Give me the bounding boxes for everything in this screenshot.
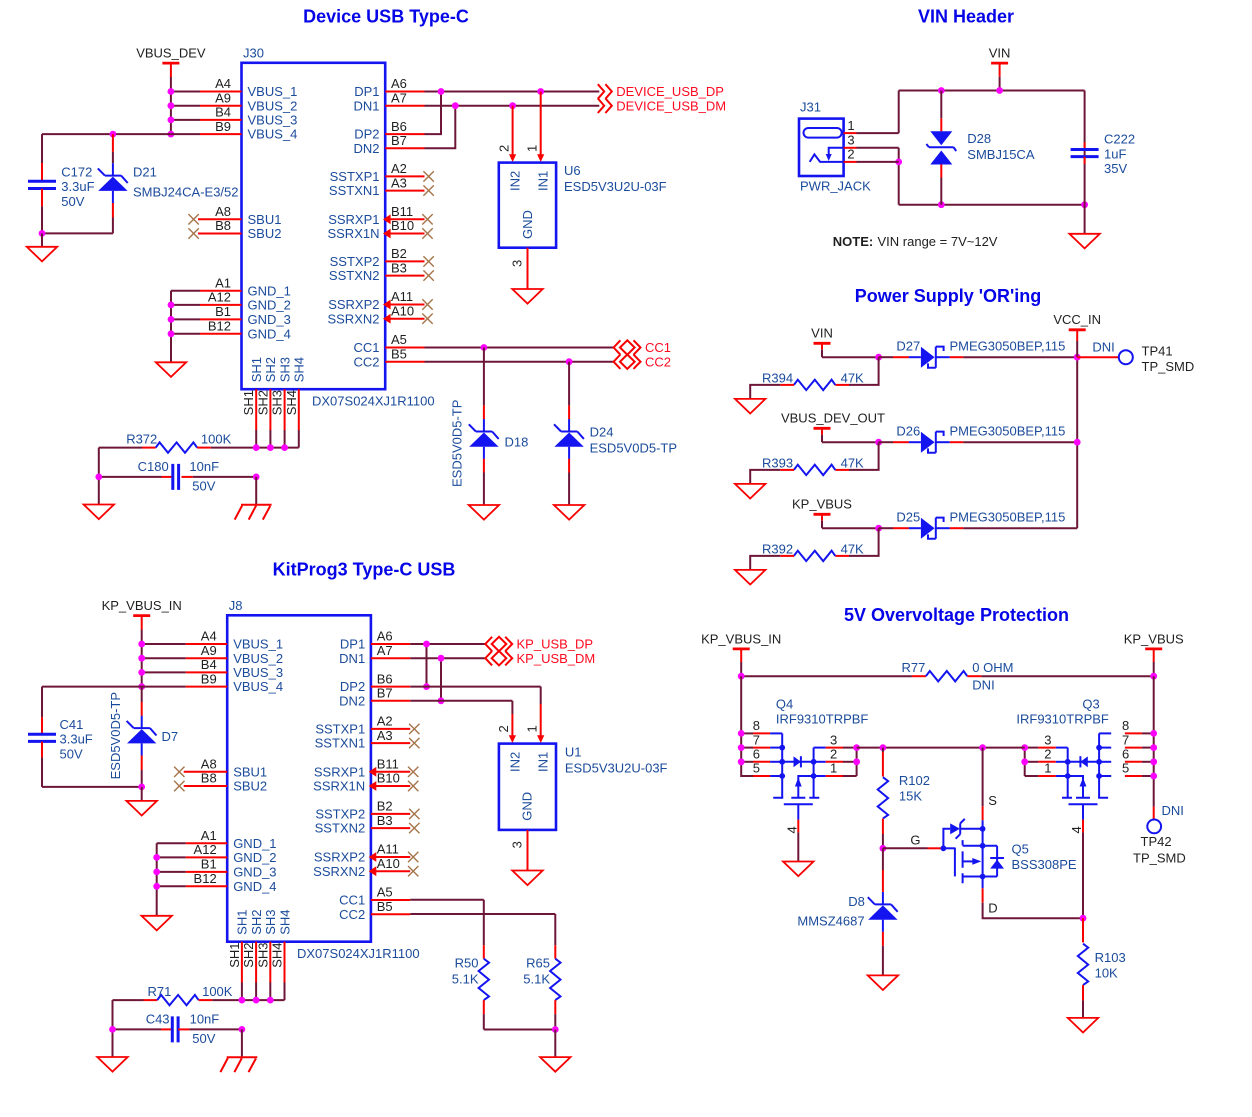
svg-text:B5: B5 [391, 346, 407, 361]
svg-text:Device USB Type-C: Device USB Type-C [303, 7, 469, 27]
svg-text:35V: 35V [1104, 161, 1127, 176]
J8 pin A1 GND_1 (left) [186, 828, 277, 851]
svg-text:B12: B12 [208, 319, 231, 334]
harness connector KP_USB_DM [485, 651, 595, 666]
capacitor C180 10nF 50V [99, 459, 256, 493]
svg-text:R372: R372 [126, 431, 157, 446]
svg-text:6: 6 [753, 747, 760, 762]
wire: KP DP1 net [410, 643, 485, 645]
J8 pin B7 DN2 (right) [339, 686, 410, 709]
svg-text:A4: A4 [215, 76, 231, 91]
svg-text:A2: A2 [377, 714, 393, 729]
wire: D25 cathode to VCC_IN bus [963, 527, 1077, 529]
J8 pin B11 SSRXP1 (right) [314, 757, 419, 780]
svg-text:SMBJ24CA-E3/52: SMBJ24CA-E3/52 [133, 185, 239, 200]
svg-text:DN1: DN1 [339, 651, 365, 666]
wire: U6 GND pin 3 [510, 248, 528, 289]
svg-text:GND: GND [520, 210, 535, 239]
J30 pin A11 SSRXP2 (right) [328, 289, 433, 312]
svg-text:3: 3 [830, 732, 837, 747]
svg-text:5: 5 [753, 761, 760, 776]
svg-text:Q5: Q5 [1012, 842, 1029, 857]
node: D27 anode junction [875, 354, 882, 361]
resistor R50 5.1K [452, 900, 489, 1030]
svg-text:DEVICE_USB_DM: DEVICE_USB_DM [616, 98, 726, 113]
J30 pin A5 CC1 (right) [353, 332, 424, 355]
wire: C41 to D7 bottom [42, 786, 142, 788]
transistor Q3 IRF9310TRPBF symbol [1056, 733, 1112, 819]
node: VBUS junctions [168, 88, 175, 137]
wire: DP1 to DP2 row [426, 644, 428, 687]
wire: KP DN1 net [410, 657, 485, 659]
svg-text:VBUS_3: VBUS_3 [233, 665, 283, 680]
svg-text:6: 6 [1122, 747, 1129, 762]
harness connector KP_USB_DP [485, 637, 593, 652]
svg-text:A6: A6 [377, 629, 393, 644]
svg-text:SSRXP1: SSRXP1 [314, 764, 365, 779]
svg-text:IN2: IN2 [507, 752, 522, 772]
svg-text:SBU2: SBU2 [233, 779, 267, 794]
chassis ground (J8 shield) [220, 1057, 257, 1072]
J30 pin B11 SSRXP1 (right) [328, 204, 433, 227]
J30 pin B5 CC2 (right) [353, 346, 424, 369]
svg-text:B1: B1 [215, 304, 231, 319]
svg-text:SSTXN1: SSTXN1 [329, 183, 380, 198]
J8 pin A6 DP1 (right) [340, 629, 410, 652]
svg-text:B6: B6 [391, 119, 407, 134]
svg-text:D25: D25 [896, 510, 920, 525]
ground (U6) [512, 289, 542, 304]
J30 pin B2 SSTXP2 (right) [330, 246, 434, 269]
node: Q3 source junctions [1021, 744, 1028, 765]
wire: VBUS_DEV to C172/D21 [42, 133, 200, 135]
ground (VIN header) [1069, 234, 1099, 249]
svg-text:SH1: SH1 [241, 390, 256, 415]
wire: KP_VBUS_IN bus [141, 644, 143, 687]
svg-text:SH4: SH4 [277, 910, 292, 935]
svg-text:KP_VBUS_IN: KP_VBUS_IN [701, 631, 781, 646]
svg-text:SH3: SH3 [263, 910, 278, 935]
node: pin2 junction [895, 159, 902, 166]
resistor R103 10K [1078, 918, 1126, 1018]
capacitor C43 10nF 50V [113, 1012, 242, 1046]
svg-text:A1: A1 [215, 275, 231, 290]
svg-text:3.3uF: 3.3uF [60, 732, 93, 747]
J8 pin B6 DP2 (right) [340, 671, 410, 694]
svg-text:CC2: CC2 [353, 354, 379, 369]
svg-text:A3: A3 [391, 175, 407, 190]
svg-text:SBU2: SBU2 [248, 226, 282, 241]
wire: gate node G to Q5 [883, 833, 941, 849]
J8 pin A9 VBUS_2 (left) [186, 643, 283, 666]
svg-text:A5: A5 [377, 885, 393, 900]
connector J31 PWR_JACK box [799, 119, 844, 176]
svg-text:2: 2 [1044, 747, 1051, 762]
wire: VBUS stub at y=105.7 [171, 105, 200, 107]
ground (R372/C180) [84, 505, 114, 520]
J8 pin A5 CC1 (right) [339, 885, 410, 908]
svg-text:D: D [988, 901, 997, 916]
svg-text:VIN: VIN [811, 326, 833, 341]
svg-text:SSRX1N: SSRX1N [313, 779, 365, 794]
svg-text:A7: A7 [391, 90, 407, 105]
svg-text:S: S [988, 793, 997, 808]
test point TP41 TP_SMD [1119, 343, 1194, 374]
svg-text:B12: B12 [194, 871, 217, 886]
J8 pin B3 SSTXN2 (right) [315, 813, 420, 836]
J31 pin 1 [844, 118, 899, 133]
diode D26 PMEG3050BEP,115 [879, 424, 1066, 453]
svg-text:ESD5V3U2U-03F: ESD5V3U2U-03F [565, 760, 668, 775]
wire: C172 to ground [41, 233, 43, 246]
power flag VBUS_DEV_OUT [781, 411, 885, 443]
wire: DP2 to U1 IN1 (pin 1) [410, 687, 544, 743]
svg-text:SBU1: SBU1 [248, 212, 282, 227]
wire: VBUS stub at y=91.5 [171, 91, 200, 93]
J30 pin B7 DN2 (right) [353, 133, 424, 156]
svg-text:R393: R393 [762, 456, 793, 471]
svg-text:B10: B10 [377, 771, 400, 786]
svg-text:R102: R102 [899, 773, 930, 788]
wire: J31 pin3/pin2 leg [898, 148, 900, 205]
wire: D27 cathode to VCC_IN bus [963, 356, 1077, 358]
J8 pin B9 VBUS_4 (left) [186, 671, 283, 694]
svg-text:50V: 50V [192, 1031, 215, 1046]
svg-text:KP_VBUS: KP_VBUS [1124, 631, 1184, 646]
wire: VIN to diode D27 [822, 356, 879, 358]
node: C180 junctions [95, 474, 259, 481]
node: R102 bottom / gate junction [880, 845, 887, 852]
svg-text:10nF: 10nF [189, 459, 219, 474]
wire: VBUS_DEV_OUT to diode D26 [822, 441, 879, 443]
wire: KP VBUS stub at y=658.2 [142, 657, 186, 659]
svg-text:KP_VBUS_IN: KP_VBUS_IN [102, 598, 182, 613]
Q4 source pin numbers 3 2 1 [830, 732, 837, 775]
node: Q4 drain junctions [738, 730, 745, 765]
wire: Q4 source pins to bus [826, 748, 857, 776]
svg-text:GND_3: GND_3 [248, 312, 291, 327]
ground (R394) [735, 399, 765, 414]
node: top rail junctions [938, 87, 1003, 94]
wire: VIN top rail [899, 90, 1085, 92]
svg-text:CC2: CC2 [339, 907, 365, 922]
svg-text:CC1: CC1 [645, 340, 671, 355]
svg-text:TP42: TP42 [1141, 834, 1172, 849]
svg-text:DX07S024XJ1R1100: DX07S024XJ1R1100 [312, 393, 435, 408]
J8 pin B5 CC2 (right) [339, 899, 410, 922]
svg-text:3: 3 [1044, 732, 1051, 747]
svg-text:DNI: DNI [1092, 340, 1114, 355]
svg-text:SH2: SH2 [263, 357, 278, 382]
ground (D18) [469, 505, 499, 520]
svg-text:VBUS_4: VBUS_4 [233, 679, 283, 694]
power flag KP_VBUS [792, 497, 852, 529]
svg-text:SSRX1N: SSRX1N [327, 226, 379, 241]
J8 pin A8 SBU1 (left) [174, 757, 267, 780]
wire: KP VBUS stub at y=644 [142, 643, 186, 645]
svg-text:VBUS_2: VBUS_2 [248, 98, 298, 113]
node: R77 end junctions [738, 673, 1157, 680]
svg-text:TP_SMD: TP_SMD [1142, 359, 1195, 374]
svg-text:SH1: SH1 [235, 910, 250, 935]
wire: VBUS_DEV vertical bus [170, 92, 172, 135]
svg-text:B8: B8 [201, 771, 217, 786]
svg-text:50V: 50V [61, 194, 84, 209]
wire: to ground [1084, 205, 1086, 234]
svg-text:Q3: Q3 [1082, 697, 1099, 712]
svg-text:BSS308PE: BSS308PE [1012, 857, 1077, 872]
note text [833, 234, 998, 249]
capacitor C222 1uF 35V [1071, 132, 1135, 177]
svg-text:SH1: SH1 [227, 943, 242, 968]
svg-text:J8: J8 [229, 598, 243, 613]
svg-text:10K: 10K [1095, 966, 1118, 981]
J8 pin A4 VBUS_1 (left) [186, 629, 283, 652]
ground (C172) [27, 247, 57, 262]
node: SH junctions on R372 wire [253, 444, 288, 451]
node: Q4 source junctions [853, 744, 860, 765]
svg-text:SH3: SH3 [255, 943, 270, 968]
svg-text:B11: B11 [377, 757, 399, 772]
svg-text:1: 1 [830, 761, 837, 776]
svg-text:B5: B5 [377, 899, 393, 914]
Q4 drain pin numbers 8 7 6 5 [753, 718, 760, 776]
wire: Q4 gate pin 4 to ground [785, 820, 800, 862]
J30 pin A12 GND_2 (left) [200, 290, 291, 313]
svg-text:SH3: SH3 [270, 390, 285, 415]
svg-text:PMEG3050BEP,115: PMEG3050BEP,115 [950, 510, 1066, 525]
svg-text:3.3uF: 3.3uF [61, 179, 94, 194]
svg-text:A12: A12 [194, 842, 217, 857]
svg-text:B9: B9 [201, 671, 217, 686]
svg-text:A10: A10 [391, 303, 414, 318]
svg-text:SH4: SH4 [292, 357, 307, 382]
svg-text:SSRXP2: SSRXP2 [328, 297, 379, 312]
node: VCC_IN bus junctions [1074, 354, 1081, 446]
J8 pin A7 DN1 (right) [339, 643, 410, 666]
power flag KP_VBUS (OVP) [1124, 631, 1184, 676]
svg-text:A3: A3 [377, 728, 393, 743]
svg-text:SSTXP2: SSTXP2 [315, 807, 365, 822]
node: DP1/DN1 junctions [438, 88, 544, 109]
J8 pin SH4 (bottom) [270, 910, 293, 1001]
svg-text:SBU1: SBU1 [233, 764, 267, 779]
J8 pin B12 GND_4 (left) [186, 871, 277, 894]
wire: KP_VBUS to diode D25 [822, 527, 879, 529]
svg-text:ESD5V0D5-TP: ESD5V0D5-TP [590, 441, 677, 456]
D18 labels [450, 400, 529, 487]
svg-text:C172: C172 [61, 164, 92, 179]
svg-text:DP1: DP1 [354, 84, 379, 99]
wire: CC1 net [425, 347, 614, 349]
transistor Q5 BSS308PE symbol [941, 748, 1005, 884]
svg-text:GND_4: GND_4 [233, 879, 276, 894]
diode D27 PMEG3050BEP,115 [879, 339, 1066, 368]
svg-text:IN1: IN1 [536, 171, 551, 191]
svg-text:DEVICE_USB_DP: DEVICE_USB_DP [616, 84, 724, 99]
svg-text:R77: R77 [902, 660, 926, 675]
ground (R103) [1068, 1018, 1098, 1033]
svg-text:7: 7 [1122, 732, 1129, 747]
resistor R102 15K [878, 748, 930, 849]
svg-text:B2: B2 [377, 799, 393, 814]
svg-text:B6: B6 [377, 671, 393, 686]
svg-text:CC1: CC1 [339, 893, 365, 908]
svg-text:IN1: IN1 [536, 752, 551, 772]
svg-text:PMEG3050BEP,115: PMEG3050BEP,115 [950, 424, 1066, 439]
J8 pin B4 VBUS_3 (left) [186, 657, 283, 680]
svg-text:DNI: DNI [1162, 803, 1184, 818]
wire: DN1 to DN2 row [440, 658, 442, 701]
svg-text:SH4: SH4 [284, 390, 299, 415]
svg-text:D8: D8 [848, 894, 865, 909]
resistor R372 100K [99, 431, 299, 452]
svg-text:DN2: DN2 [339, 693, 365, 708]
svg-text:SH2: SH2 [241, 943, 256, 968]
J30 pin A10 SSRXN2 (right) [327, 303, 432, 326]
resistor R393 47K [750, 442, 878, 484]
svg-text:5.1K: 5.1K [452, 972, 479, 987]
wire: VCC_IN to TP41 [1077, 356, 1118, 358]
node: C43 junctions [109, 1026, 245, 1033]
svg-text:SSTXN2: SSTXN2 [329, 268, 380, 283]
connector J8 box [227, 615, 371, 941]
svg-text:DP1: DP1 [340, 637, 365, 652]
svg-text:D27: D27 [896, 339, 920, 354]
ground (Q4 gate) [783, 862, 813, 877]
svg-text:KP_USB_DP: KP_USB_DP [517, 637, 594, 652]
node: KP VBUS junctions [138, 641, 145, 690]
svg-text:MMSZ4687: MMSZ4687 [797, 913, 864, 928]
svg-text:R50: R50 [455, 956, 479, 971]
svg-text:A6: A6 [391, 76, 407, 91]
svg-text:KP_VBUS: KP_VBUS [792, 497, 852, 512]
wire: DN2 to DN1 [425, 106, 456, 149]
svg-text:KP_USB_DM: KP_USB_DM [517, 651, 596, 666]
diode D28 SMBJ15CA (TVS) [926, 91, 1034, 205]
svg-text:50V: 50V [60, 746, 83, 761]
J30 pin B9 VBUS_4 (left) [200, 119, 297, 142]
svg-text:A4: A4 [201, 629, 217, 644]
wire: DP1 to U6 IN1 (pin 1) [525, 92, 545, 163]
svg-text:GND_3: GND_3 [233, 865, 276, 880]
svg-text:PMEG3050BEP,115: PMEG3050BEP,115 [950, 339, 1066, 354]
svg-text:IN2: IN2 [508, 171, 523, 191]
svg-text:Power Supply 'OR'ing: Power Supply 'OR'ing [855, 286, 1042, 306]
wire: VBUS_4 row to C41 [42, 686, 186, 688]
svg-text:C180: C180 [138, 459, 169, 474]
svg-text:GND_1: GND_1 [248, 283, 291, 298]
svg-text:5.1K: 5.1K [523, 972, 550, 987]
svg-text:8: 8 [753, 718, 760, 733]
J30 pin A4 VBUS_1 (left) [200, 76, 297, 99]
offsheet connector DEVICE_USB_DP [598, 84, 724, 99]
svg-text:A1: A1 [201, 828, 217, 843]
J30 pin B1 GND_3 (left) [200, 304, 291, 327]
svg-text:SH3: SH3 [277, 357, 292, 382]
J30 pin A1 GND_1 (left) [200, 275, 291, 298]
svg-text:A7: A7 [377, 643, 393, 658]
svg-text:U6: U6 [564, 163, 581, 178]
ground (U1) [512, 871, 542, 886]
svg-text:IRF9310TRPBF: IRF9310TRPBF [776, 711, 869, 726]
svg-text:SSTXN1: SSTXN1 [315, 736, 366, 751]
J8 pin SH1 (bottom) [227, 910, 250, 1001]
wire: DP2 to DP1 [425, 92, 442, 135]
svg-text:A2: A2 [391, 161, 407, 176]
svg-text:SSTXP1: SSTXP1 [330, 169, 380, 184]
svg-text:R392: R392 [762, 542, 793, 557]
J30 pin B12 GND_4 (left) [200, 319, 291, 342]
node: R65 bottom junction [552, 1026, 559, 1033]
wire: DN2 to U1 IN2 (pin 2) [410, 701, 516, 743]
svg-text:SH1: SH1 [249, 357, 264, 382]
wire: KP SH to chassis ground [241, 1029, 243, 1057]
node: D25 anode junction [875, 525, 882, 532]
svg-text:SSRXP2: SSRXP2 [314, 850, 365, 865]
diode D25 PMEG3050BEP,115 [879, 510, 1066, 539]
wire: GND bus of J30 [171, 291, 200, 363]
ground (J8 GND pins) [142, 916, 172, 931]
power flag KP_VBUS_IN (OVP) [701, 631, 781, 676]
svg-text:G: G [910, 833, 920, 848]
J31 switch symbol [810, 148, 844, 162]
svg-text:1: 1 [525, 145, 540, 152]
J30 pin A8 SBU1 (left) [188, 204, 281, 227]
capacitor C172 [28, 134, 95, 233]
op-amp U6 ESD5V3U2U-03F box [499, 163, 556, 248]
svg-text:10nF: 10nF [190, 1012, 220, 1027]
svg-text:DNI: DNI [972, 677, 994, 692]
wire: Q3 drain pins to KP_VBUS bus [1125, 676, 1154, 807]
svg-text:3: 3 [847, 133, 854, 148]
wire: Q5 drain to R103 node [983, 877, 1083, 919]
power flag VCC_IN [1053, 312, 1101, 357]
svg-text:B9: B9 [215, 119, 231, 134]
resistor R392 47K [750, 528, 878, 570]
svg-text:B4: B4 [201, 657, 217, 672]
svg-text:U1: U1 [565, 745, 582, 760]
J8 pin B2 SSTXP2 (right) [315, 799, 419, 822]
svg-text:2: 2 [847, 147, 854, 162]
Q3 source pin numbers 3 2 1 [1044, 732, 1051, 775]
svg-text:4: 4 [785, 826, 800, 833]
svg-text:SSTXP2: SSTXP2 [330, 254, 380, 269]
resistor R71 100K [113, 984, 285, 1005]
svg-text:ESD5V0D5-TP: ESD5V0D5-TP [108, 692, 123, 779]
node: J8 GND junctions [153, 854, 160, 890]
node: D26 anode junction [875, 439, 882, 446]
svg-text:A8: A8 [201, 757, 217, 772]
op-amp U1 ESD5V3U2U-03F box [499, 744, 556, 830]
J8 pin B10 SSRX1N (right) [313, 771, 418, 794]
J30 pin B6 DP2 (right) [354, 119, 424, 142]
svg-text:15K: 15K [899, 789, 922, 804]
svg-text:R394: R394 [762, 371, 793, 386]
svg-text:1: 1 [1044, 761, 1051, 776]
svg-text:TP41: TP41 [1142, 343, 1173, 358]
svg-text:C43: C43 [146, 1012, 170, 1027]
J31 pin 2 [844, 147, 899, 162]
svg-text:GND_4: GND_4 [248, 326, 291, 341]
wire: KP CC1 net [410, 899, 484, 901]
wire: J31 pin1 riser [898, 91, 900, 134]
J8 pin B1 GND_3 (left) [186, 857, 277, 880]
wire: R50/R65 bottom [484, 1029, 556, 1031]
svg-text:D26: D26 [896, 424, 920, 439]
J30 pin B10 SSRX1N (right) [327, 218, 432, 241]
J31 barrel symbol [804, 128, 842, 138]
